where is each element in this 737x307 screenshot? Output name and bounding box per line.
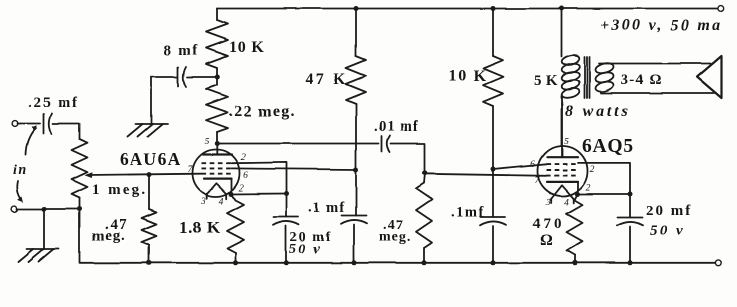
junction screen node V1 — [354, 167, 359, 172]
ground 8mf — [128, 124, 168, 137]
tube V2 envelope — [538, 146, 588, 196]
junction .1mf V2 rail — [491, 260, 496, 265]
label 6AQ5 — [582, 136, 634, 157]
svg-text:8 watts: 8 watts — [565, 103, 630, 120]
wire V2 cathode to cap — [578, 193, 631, 195]
svg-text:2: 2 — [586, 184, 591, 194]
pin 2 lower V1 — [239, 184, 244, 194]
junction V2 cathode — [575, 192, 580, 197]
pin 6 V2 — [530, 160, 535, 170]
wire .22meg to plate — [216, 132, 218, 144]
wire secondary bottom — [601, 92, 714, 94]
label +300 v, 50 ma — [600, 17, 722, 34]
wire V2 cathode lead — [577, 182, 579, 194]
pin 7 V2 — [535, 176, 541, 186]
wire 8mf to ground — [151, 77, 177, 124]
label 1.8 K — [179, 218, 221, 237]
capacitor 8 mf — [178, 67, 186, 87]
capacitor .01 mf — [382, 136, 390, 152]
tube V1 heater — [207, 183, 227, 199]
svg-text:3: 3 — [200, 197, 206, 207]
wire .47meg V2 to rail — [423, 248, 425, 263]
junction 10K rail — [491, 6, 496, 11]
svg-text:5: 5 — [564, 137, 569, 147]
label 5 K — [534, 73, 558, 89]
junction .47meg rail — [147, 260, 152, 265]
ground input — [19, 249, 59, 262]
label 8 watts — [565, 103, 630, 120]
wire 20mf top lead — [286, 194, 288, 217]
terminal input hot — [12, 121, 18, 127]
label .22 meg. — [229, 103, 296, 120]
wire primary to plate — [561, 96, 563, 157]
svg-text:50 v: 50 v — [289, 242, 322, 257]
tube V1 grid1 dashed — [202, 173, 232, 175]
label 3-4 ohm — [621, 72, 663, 88]
svg-text:5: 5 — [205, 137, 210, 147]
svg-text:1 meg.: 1 meg. — [92, 182, 147, 198]
wire 470 to rail — [574, 255, 576, 263]
svg-text:3-4 Ω: 3-4 Ω — [621, 72, 663, 88]
capacitor .25 mf — [44, 113, 52, 134]
terminal +300v — [718, 6, 724, 12]
label .47 meg V2 — [379, 219, 411, 246]
wire V1 cathode lead — [231, 179, 233, 194]
svg-text:2: 2 — [590, 165, 595, 175]
label 10 K left — [229, 39, 265, 56]
svg-text:3: 3 — [545, 198, 551, 208]
tube V2 cathode — [547, 181, 578, 183]
label 8 mf — [164, 43, 199, 59]
junction .47meg V2 rail — [422, 260, 427, 265]
wire V2 beam plates — [578, 163, 631, 194]
svg-text:4: 4 — [219, 197, 224, 207]
label 47 K — [305, 71, 349, 88]
wire .1mf V1 to rail — [353, 225, 355, 263]
wire pot bottom — [79, 198, 81, 209]
svg-text:in: in — [13, 163, 28, 178]
resistor 10 K V2 — [483, 56, 503, 106]
wire V1 suppressor to cathode — [232, 162, 287, 193]
wire V1 plate to coupling cap — [217, 143, 378, 145]
svg-text:10 K: 10 K — [448, 68, 487, 85]
wire .1mf V2 to rail — [492, 226, 494, 263]
label 20 mf V1 — [289, 230, 332, 257]
label 470 ohm — [533, 216, 565, 249]
junction 470 rail — [572, 260, 577, 265]
tube V1 envelope — [193, 150, 240, 197]
svg-text:470: 470 — [533, 216, 565, 232]
wire V1 screen — [232, 168, 357, 169]
svg-text:6: 6 — [243, 171, 248, 181]
transformer secondary 3-4 ohm — [594, 62, 614, 94]
junction 1.8K rail — [233, 260, 238, 265]
wire bottom ground rail — [80, 209, 716, 263]
transformer primary 5K — [561, 54, 581, 99]
wire 20mf V2 bottom — [629, 227, 631, 263]
wire .47meg to rail — [148, 245, 150, 263]
terminal bottom right — [715, 260, 721, 266]
speaker — [697, 56, 722, 98]
svg-text:2: 2 — [241, 153, 246, 163]
wire V1 cathode to 1.8K — [232, 194, 236, 200]
svg-text:5 K: 5 K — [534, 73, 558, 89]
wire secondary top — [599, 63, 711, 65]
svg-text:20 mf: 20 mf — [646, 203, 692, 219]
svg-text:Ω: Ω — [540, 232, 553, 249]
svg-text:meg.: meg. — [379, 230, 411, 245]
tube V2 heater — [551, 185, 574, 203]
svg-text:.22 meg.: .22 meg. — [229, 103, 296, 120]
resistor .47 meg V2 — [416, 183, 432, 248]
wire 47K to screen node — [355, 104, 357, 170]
junction screen node V2 — [491, 167, 496, 172]
junction 20mf V2 rail — [628, 260, 633, 265]
svg-text:+300 v, 50 ma: +300 v, 50 ma — [600, 17, 722, 34]
svg-text:1.8 K: 1.8 K — [179, 218, 221, 237]
pin 4 V1 — [219, 197, 224, 207]
wire V2 cathode to 470 — [575, 194, 578, 200]
svg-text:meg.: meg. — [92, 228, 126, 244]
pin 5 V2 — [564, 137, 569, 147]
resistor 10 K left — [206, 20, 228, 68]
resistor 470 ohm — [567, 200, 583, 255]
capacitor .1 mf V1 — [341, 216, 367, 224]
tube V1 grid3 dashed — [202, 162, 232, 164]
junction V1 cathode — [229, 192, 234, 197]
pin 7 V1 — [188, 165, 194, 175]
pin 3 V1 — [200, 197, 206, 207]
wire screen node to V2 pin6 — [493, 164, 546, 169]
junction transformer rail — [559, 6, 564, 11]
wire rail to 10K — [216, 9, 218, 21]
wire rail to 47K — [355, 9, 357, 57]
pin 2 upper V2 — [590, 165, 595, 175]
pin 2 lower V2 — [586, 184, 591, 194]
wire 1.8K to rail — [235, 253, 237, 263]
wire 20mf bottom lead — [285, 226, 287, 263]
svg-text:.1 mf: .1 mf — [308, 200, 345, 216]
resistor 47 K — [346, 56, 366, 104]
svg-text:8 mf: 8 mf — [164, 43, 199, 59]
pin 5 V1 — [205, 137, 210, 147]
pin 3 V2 — [545, 198, 551, 208]
svg-text:.01 mf: .01 mf — [374, 119, 419, 135]
label in — [13, 163, 28, 178]
wire screen node to .1mf — [492, 170, 494, 218]
junction grid node — [147, 172, 152, 177]
junction 20mf V2 node — [628, 192, 633, 197]
potentiometer 1 meg — [72, 139, 88, 198]
input arrow upper — [26, 125, 37, 155]
wire 10K to node — [216, 68, 218, 85]
pin 6 V1 — [243, 171, 248, 181]
svg-text:.1mf: .1mf — [451, 205, 485, 221]
resistor .47 meg input — [142, 209, 157, 245]
wire grid to .47meg — [148, 175, 150, 209]
junction V2 grid node — [423, 171, 428, 176]
pot wiper arrow — [85, 172, 202, 178]
label .1 mf V2 — [451, 205, 485, 221]
label 6AU6A — [120, 149, 181, 169]
label 20 mf V2 — [646, 203, 692, 239]
svg-text:6: 6 — [530, 160, 535, 170]
label .47 meg input — [92, 217, 127, 244]
wire input ground bus — [17, 208, 80, 210]
label 1 meg. — [92, 182, 147, 198]
tube V1 plate — [203, 144, 232, 155]
wire top B+ rail — [217, 8, 717, 10]
junction 8mf node — [215, 75, 220, 80]
tube V2 grid2 dashed — [546, 169, 578, 171]
capacitor 20 mf V1 — [273, 217, 299, 225]
label .01 mf — [374, 119, 419, 135]
wire grid node down — [424, 173, 425, 183]
wire node to 8mf — [187, 76, 217, 78]
wire 20mf V2 top — [629, 194, 631, 218]
tube V2 grid3 dashed — [546, 163, 578, 165]
svg-text:6AQ5: 6AQ5 — [582, 136, 634, 157]
wire cap to pot — [53, 124, 80, 140]
wire 10K to screen node V2 — [492, 106, 494, 170]
junction pot bottom — [77, 207, 82, 212]
transformer core — [585, 57, 590, 98]
svg-text:6AU6A: 6AU6A — [120, 149, 181, 169]
capacitor .1 mf V2 — [480, 217, 506, 225]
tube V2 plate — [547, 96, 578, 157]
wire input to cap — [17, 123, 40, 125]
junction plate node V1 — [215, 141, 220, 146]
svg-text:47 K: 47 K — [305, 71, 349, 88]
wire coupling cap to grid node — [391, 144, 426, 174]
junction input gnd — [42, 207, 47, 212]
tube V1 grid2 dashed — [202, 167, 232, 169]
junction 20mf node — [284, 191, 289, 196]
wire cathode to cap — [232, 193, 287, 196]
junction .1mf V1 rail — [352, 260, 357, 265]
wire rail to 10K V2 — [492, 9, 494, 57]
input arrow lower — [17, 181, 23, 202]
svg-text:2: 2 — [239, 184, 244, 194]
wire rail to primary — [561, 9, 563, 58]
pin 4 V2 — [564, 198, 569, 208]
wire screen node to cap — [355, 170, 357, 216]
label .25 mf — [28, 95, 79, 111]
resistor 1.8 K — [227, 200, 244, 253]
pin 2 upper V1 — [241, 153, 246, 163]
wire grid node to V2 — [425, 174, 546, 176]
svg-text:.25 mf: .25 mf — [28, 95, 79, 111]
junction 20mf rail — [284, 260, 289, 265]
svg-text:4: 4 — [564, 198, 569, 208]
resistor .22 meg — [206, 85, 228, 132]
capacitor 20 mf V2 — [617, 218, 643, 226]
wire to input ground — [43, 209, 45, 249]
junction 47K rail — [354, 6, 359, 11]
terminal input ground — [12, 206, 18, 212]
tube V2 grid1 dashed — [546, 175, 578, 177]
tube V1 cathode — [204, 178, 232, 180]
svg-text:10 K: 10 K — [229, 39, 265, 56]
label 10 K V2 — [448, 68, 487, 85]
svg-text:50 v: 50 v — [650, 223, 685, 239]
label .1 mf V1 — [308, 200, 345, 216]
